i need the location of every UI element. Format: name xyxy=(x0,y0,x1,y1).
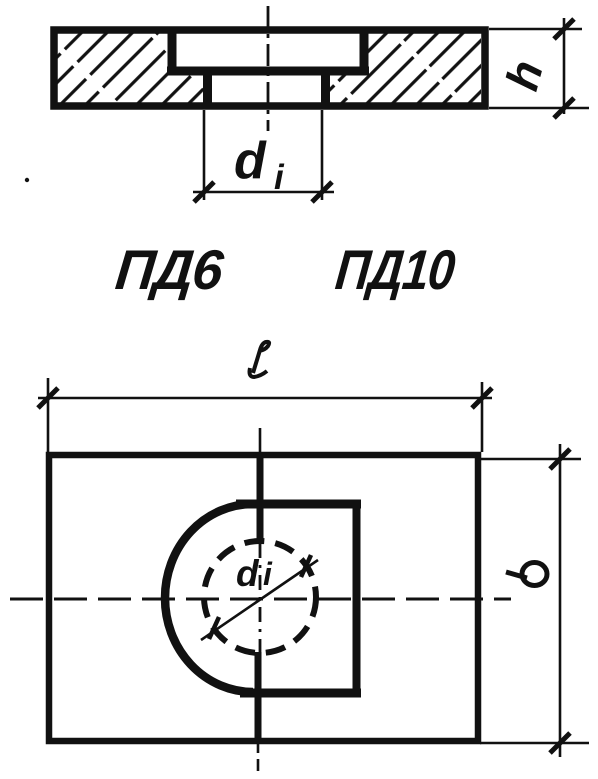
svg-text:i: i xyxy=(274,158,285,197)
svg-text:ПД10: ПД10 xyxy=(333,238,458,301)
svg-text:ПД6: ПД6 xyxy=(113,238,227,301)
svg-text:i: i xyxy=(263,556,273,592)
svg-text:d: d xyxy=(236,553,260,594)
svg-text:d: d xyxy=(234,132,267,190)
